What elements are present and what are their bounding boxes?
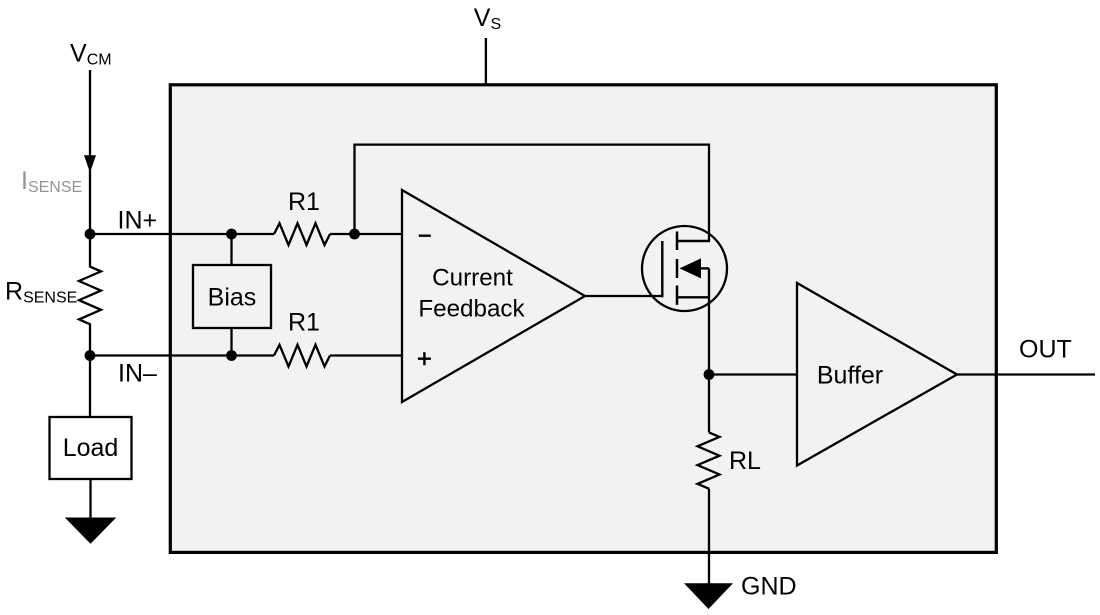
wire bias bottom stub	[230, 328, 232, 356]
svg-text:VCM: VCM	[70, 40, 112, 69]
resistor R1 bottom	[274, 345, 330, 367]
svg-text:IN–: IN–	[118, 359, 157, 387]
wire IN- net	[90, 354, 274, 356]
supply pin VS wire	[485, 38, 487, 84]
wire R1 to op-amp plus input	[330, 354, 402, 356]
node junction dot bias bottom	[226, 350, 237, 361]
node junction dot feedback	[349, 229, 360, 240]
svg-text:ISENSE: ISENSE	[21, 167, 82, 196]
op-amp minus sign	[419, 234, 431, 236]
current direction arrow	[84, 155, 96, 172]
wire RL to GND	[708, 489, 710, 584]
load block	[50, 417, 132, 479]
IC body box	[170, 85, 996, 553]
wire feedback loop	[355, 145, 710, 241]
transistor body arrow	[680, 258, 702, 278]
svg-text:VS: VS	[474, 4, 501, 33]
node junction dot IN-	[85, 350, 96, 361]
svg-text:RSENSE: RSENSE	[5, 278, 77, 307]
svg-text:Load: Load	[63, 434, 119, 462]
svg-text:OUT: OUT	[1019, 335, 1072, 363]
transistor drain bar	[678, 240, 710, 242]
resistor RSENSE	[79, 234, 101, 356]
svg-text:Feedback: Feedback	[418, 296, 525, 323]
svg-text:IN+: IN+	[118, 207, 158, 235]
svg-text:GND: GND	[741, 573, 797, 601]
transistor Q1 body circle	[642, 226, 727, 311]
op-amp U1 current feedback	[402, 190, 585, 402]
transistor body-source link	[708, 268, 710, 297]
wire source to RL	[708, 297, 710, 432]
resistor R1 top	[274, 223, 330, 245]
node junction dot output stage	[704, 369, 715, 380]
transistor source bar	[678, 296, 710, 298]
svg-text:R1: R1	[288, 188, 320, 216]
wire load to ground	[89, 479, 91, 519]
wire OUT net	[957, 373, 1095, 375]
wire R1 to op-amp minus input	[330, 233, 402, 235]
svg-text:R1: R1	[288, 309, 320, 337]
wire to buffer input	[709, 373, 797, 375]
op-amp plus sign	[418, 358, 431, 360]
wire load stub	[89, 356, 91, 418]
op-amp buffer	[797, 283, 957, 466]
ground symbol load	[65, 518, 117, 544]
transistor gate bar	[661, 241, 663, 297]
bias block	[193, 265, 271, 328]
wire op-amp output to gate	[585, 295, 662, 297]
node junction dot IN+	[85, 229, 96, 240]
ground symbol GND	[684, 583, 733, 609]
resistor RL	[698, 432, 720, 488]
wire bias top stub	[230, 234, 232, 265]
transistor body bar	[700, 267, 709, 269]
svg-text:Buffer: Buffer	[817, 362, 883, 390]
node junction dot bias top	[226, 229, 237, 240]
wire IN+ net	[90, 233, 274, 235]
transistor channel dashes	[676, 232, 679, 251]
svg-text:RL: RL	[729, 447, 761, 475]
svg-text:Current: Current	[432, 265, 513, 292]
wire VCM input rail	[89, 70, 91, 234]
svg-text:Bias: Bias	[208, 284, 257, 312]
